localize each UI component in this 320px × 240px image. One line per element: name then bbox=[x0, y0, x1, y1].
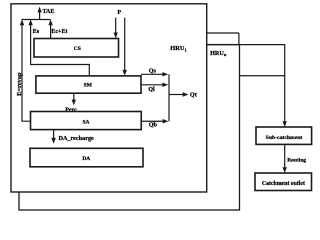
box SM bbox=[36, 76, 141, 93]
arrow Qs bbox=[141, 68, 168, 77]
svg-text:Qt: Qt bbox=[190, 91, 198, 98]
arrow Es (from SM top, jog left, up to header line) bbox=[28, 19, 89, 76]
wire evap header line (y=19.5) bbox=[21, 19, 50, 21]
svg-text:Routing: Routing bbox=[287, 157, 306, 163]
arrow P into SM bbox=[123, 18, 127, 76]
arrow Routing bbox=[283, 144, 307, 173]
svg-text:HRU1: HRU1 bbox=[170, 45, 186, 52]
arrow TAE up bbox=[37, 7, 54, 20]
arrow down into Sub-catchment bbox=[283, 45, 287, 127]
wire connector y=44.6 from HRU1 edge to sub-catchment drop line bbox=[207, 44, 286, 46]
arrow E=revap (from SA left, up to header line) bbox=[16, 19, 31, 121]
svg-text:DA: DA bbox=[82, 156, 90, 162]
svg-text:CS: CS bbox=[74, 46, 81, 52]
svg-text:Sub-catchment: Sub-catchment bbox=[266, 135, 303, 141]
box HRUn (back card) bbox=[19, 45, 240, 210]
svg-text:SA: SA bbox=[82, 120, 89, 126]
svg-text:DA_recharge: DA_recharge bbox=[59, 135, 95, 142]
svg-text:Ql: Ql bbox=[148, 86, 155, 93]
svg-text:E=revap: E=revap bbox=[16, 72, 23, 96]
svg-text:Ec+Et: Ec+Et bbox=[51, 29, 67, 35]
svg-text:Es: Es bbox=[33, 28, 40, 35]
box HRU1 (front card) bbox=[11, 4, 207, 192]
box DA bbox=[30, 148, 143, 167]
svg-text:Qb: Qb bbox=[149, 121, 158, 128]
arrow Perc (SM to SA) bbox=[65, 93, 77, 114]
box Sub-catchment bbox=[256, 127, 312, 144]
box CS bbox=[34, 39, 119, 58]
box Catchment outlet bbox=[255, 173, 312, 191]
wire HRUn right vertical edge segment above box (x=238.9) bbox=[238, 33, 240, 45]
svg-text:Catchment outlet: Catchment outlet bbox=[262, 181, 305, 187]
box SA bbox=[31, 112, 142, 130]
svg-text:Qs: Qs bbox=[149, 68, 157, 75]
arrow Qt bbox=[169, 91, 198, 98]
arrow Ql bbox=[141, 83, 168, 94]
arrow Qb bbox=[141, 119, 168, 128]
arrow P into CS bbox=[114, 18, 118, 39]
svg-text:SM: SM bbox=[84, 82, 93, 88]
svg-text:P: P bbox=[117, 10, 121, 16]
wire connector y=75.75 from HRUn right edge to drop line bbox=[239, 75, 285, 77]
wire Q collector vertical bbox=[168, 74, 170, 121]
wire HRU1 right edge to HRUn right-edge line (y=33) bbox=[207, 32, 239, 34]
svg-text:TAE: TAE bbox=[43, 9, 55, 15]
arrow Ec+Et (from CS top up to header line) bbox=[48, 19, 67, 38]
arrow DA_recharge (SA to DA) bbox=[51, 130, 94, 144]
